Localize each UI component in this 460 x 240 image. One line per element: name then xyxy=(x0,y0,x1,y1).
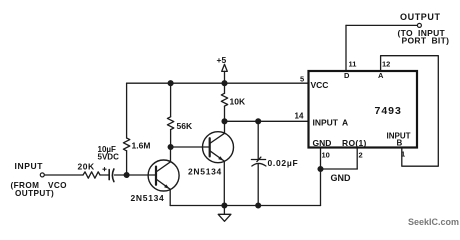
svg-text:A: A xyxy=(378,71,384,80)
ground symbol triangle xyxy=(218,214,231,221)
svg-text:20K: 20K xyxy=(78,161,95,171)
svg-text:2N5134: 2N5134 xyxy=(131,193,165,203)
svg-text:SeekIC.com: SeekIC.com xyxy=(408,217,459,227)
transistor Q2 collector xyxy=(210,121,225,143)
svg-text:GND: GND xyxy=(313,138,332,148)
terminal: INPUT xyxy=(40,173,44,177)
svg-text:1: 1 xyxy=(401,150,405,159)
svg-text:5: 5 xyxy=(300,75,304,84)
node: junction C1/1.6M xyxy=(124,173,129,178)
svg-text:B: B xyxy=(397,138,403,147)
wire 1.6M bottom xyxy=(126,151,128,175)
wire node to Q2 base xyxy=(171,146,210,148)
wire ground rail xyxy=(170,205,320,207)
svg-text:INPUT A: INPUT A xyxy=(313,118,349,128)
wire Q2 emitter down xyxy=(223,161,225,205)
wire input to 20K xyxy=(45,174,84,176)
node: Q1 collector / Q2 base xyxy=(168,145,173,150)
svg-text:1.6M: 1.6M xyxy=(132,141,151,151)
svg-text:RO(1): RO(1) xyxy=(342,138,367,148)
svg-text:OUTPUT: OUTPUT xyxy=(400,12,441,22)
svg-text:VCC: VCC xyxy=(311,80,329,90)
wire C2 upper xyxy=(257,121,259,158)
capacitor C2 0.02uF bottom plate xyxy=(252,163,266,166)
transistor Q2 base bar xyxy=(209,138,211,156)
transistor Q2 2N5134 circle xyxy=(203,132,234,163)
transistor Q1 2N5134 circle xyxy=(148,160,179,191)
wire 1.6M top to rail xyxy=(126,83,128,138)
resistor 1.6M xyxy=(123,138,129,151)
wire gnd junction down xyxy=(320,169,322,206)
transistor Q1 collector xyxy=(156,147,171,172)
wire 20K to C1 xyxy=(100,174,109,176)
wire C2 lower xyxy=(257,164,259,206)
node: +5 / top rail xyxy=(222,81,227,86)
svg-text:2N5134: 2N5134 xyxy=(188,167,222,177)
transistor Q1 emitter xyxy=(156,179,170,189)
wire pin 12 feedback loop xyxy=(381,56,439,167)
svg-text:12: 12 xyxy=(382,60,390,69)
node: C2 top xyxy=(256,119,261,124)
svg-text:PORT BIT): PORT BIT) xyxy=(402,36,450,46)
supply +5 arrow xyxy=(222,64,228,71)
svg-text:10: 10 xyxy=(322,150,330,159)
node: gnd pins junction xyxy=(318,167,323,172)
svg-text:14: 14 xyxy=(295,112,304,121)
capacitor C1 10uF plate+ xyxy=(108,170,110,180)
wire 10K lower xyxy=(224,106,226,121)
capacitor C2 0.02uF top plate xyxy=(251,157,265,162)
wire 56K upper xyxy=(170,83,172,117)
node: C2 bottom xyxy=(256,203,261,208)
resistor 56K xyxy=(167,117,173,130)
svg-text:0.02µF: 0.02µF xyxy=(268,158,299,168)
svg-text:INPUT: INPUT xyxy=(15,161,44,171)
wire top rail to VCC pin5 xyxy=(127,82,309,84)
node: 56K top xyxy=(168,81,173,86)
transistor Q2 emitter xyxy=(210,151,225,161)
wire pin2 to pin10 xyxy=(321,168,358,170)
svg-text:2: 2 xyxy=(359,150,363,159)
svg-text:D: D xyxy=(344,71,350,80)
wire pin 11 to output xyxy=(346,24,417,26)
transistor Q1 emitter arrow xyxy=(164,184,170,189)
svg-text:7493: 7493 xyxy=(375,105,402,117)
wire C1 to Q1 base xyxy=(114,174,156,176)
svg-text:+5: +5 xyxy=(217,55,227,65)
svg-text:11: 11 xyxy=(349,60,357,69)
svg-text:OUTPUT): OUTPUT) xyxy=(15,189,54,198)
wire 10K upper xyxy=(224,83,226,93)
svg-text:5VDC: 5VDC xyxy=(98,153,120,162)
wire to pin 14 xyxy=(225,120,309,122)
svg-text:GND: GND xyxy=(331,173,352,183)
svg-text:56K: 56K xyxy=(177,121,193,131)
terminal: OUTPUT xyxy=(417,23,421,27)
ground stem xyxy=(223,206,225,215)
capacitor C1 plus sign xyxy=(103,168,106,171)
wire pin 2 xyxy=(356,148,358,170)
wire Q1 emitter to ground rail xyxy=(169,189,171,205)
wire pin 11 up xyxy=(345,25,347,71)
svg-text:10K: 10K xyxy=(230,97,246,107)
capacitor C1 10uF curved plate xyxy=(112,169,114,182)
wire 56K lower xyxy=(170,130,172,147)
IC U1 7493 box xyxy=(309,71,418,148)
transistor Q2 emitter arrow xyxy=(218,156,224,161)
resistor 20K xyxy=(83,172,100,178)
transistor Q1 base bar xyxy=(155,167,157,185)
wire pin 10 xyxy=(320,148,322,170)
resistor 10K xyxy=(221,93,227,106)
node: ground junction xyxy=(222,203,227,208)
wire +5 rail xyxy=(224,71,226,83)
node: 10K/Q2 collector xyxy=(222,119,227,124)
